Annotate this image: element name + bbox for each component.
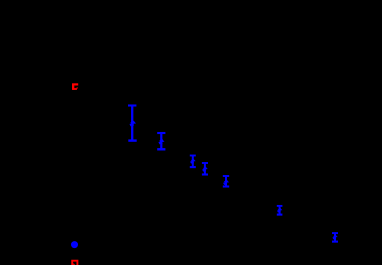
- red square marker (bottom edge, cut off): [72, 261, 77, 265]
- error bar 2: [157, 133, 165, 149]
- marker M7 on error bar 7: [332, 235, 337, 240]
- red square marker inner diagonal tick: [73, 263, 75, 265]
- error bar 3: [190, 156, 196, 168]
- marker M4 on error bar 4: [202, 167, 208, 172]
- error bar 6: [277, 206, 283, 215]
- red ring marker (upper left, open on right): [72, 83, 78, 90]
- error bar 5: [223, 176, 229, 187]
- marker M1 on error bar 1: [130, 121, 137, 127]
- marker M5 on error bar 5: [223, 180, 229, 185]
- error bar 1 (largest, upper left of diagonal): [128, 106, 137, 141]
- marker M2 on error bar 2: [158, 139, 164, 144]
- marker M3 on error bar 3: [190, 159, 196, 164]
- marker M6 on error bar 6: [277, 208, 282, 213]
- error bar 7 (smallest, lower right of diagonal): [332, 233, 338, 242]
- error bar 4: [202, 163, 208, 175]
- blue dot marker (lower left): [71, 241, 78, 248]
